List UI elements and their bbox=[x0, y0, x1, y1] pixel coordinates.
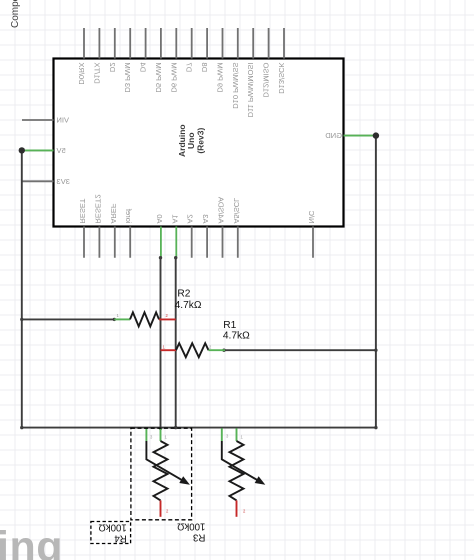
svg-text:5V: 5V bbox=[57, 146, 66, 155]
svg-text:D9 PWM: D9 PWM bbox=[216, 63, 225, 93]
svg-text:ing: ing bbox=[0, 523, 63, 560]
svg-text:D2: D2 bbox=[108, 63, 117, 73]
svg-text:D1/TX: D1/TX bbox=[92, 63, 101, 84]
svg-text:D12/MISO: D12/MISO bbox=[262, 62, 271, 97]
svg-text:4.7kΩ: 4.7kΩ bbox=[223, 330, 250, 341]
svg-text:R3: R3 bbox=[193, 531, 205, 542]
svg-text:D11 PWM/MOSI: D11 PWM/MOSI bbox=[246, 63, 255, 118]
svg-text:D7: D7 bbox=[185, 63, 194, 73]
svg-text:D0/RX: D0/RX bbox=[77, 63, 86, 85]
svg-text:D6 PWM: D6 PWM bbox=[169, 63, 178, 93]
svg-text:AREF: AREF bbox=[109, 203, 118, 223]
svg-text:D8: D8 bbox=[200, 63, 209, 73]
svg-text:R2: R2 bbox=[177, 289, 190, 300]
svg-text:A1: A1 bbox=[170, 214, 179, 223]
svg-text:RESET: RESET bbox=[78, 198, 87, 223]
svg-text:ioref: ioref bbox=[124, 208, 133, 224]
svg-text:D4: D4 bbox=[139, 63, 148, 73]
svg-text:D5 PWM: D5 PWM bbox=[154, 63, 163, 93]
svg-text:A5/SCL: A5/SCL bbox=[232, 198, 241, 224]
svg-text:D10 PWM/SS: D10 PWM/SS bbox=[231, 63, 240, 109]
svg-text:N/C: N/C bbox=[307, 210, 316, 224]
svg-text:VIN: VIN bbox=[57, 116, 70, 125]
svg-text:A0: A0 bbox=[155, 214, 164, 223]
svg-text:3V3: 3V3 bbox=[57, 177, 70, 186]
svg-text:4.7kΩ: 4.7kΩ bbox=[175, 300, 202, 311]
svg-text:A2: A2 bbox=[186, 214, 195, 223]
svg-text:GND: GND bbox=[325, 131, 342, 140]
svg-text:Compo: Compo bbox=[10, 0, 21, 28]
svg-text:A3: A3 bbox=[201, 214, 210, 223]
svg-text:D3 PWM: D3 PWM bbox=[123, 63, 132, 93]
svg-text:D13/SCK: D13/SCK bbox=[277, 63, 286, 94]
svg-text:100kΩ: 100kΩ bbox=[177, 521, 205, 532]
svg-text:100kΩ: 100kΩ bbox=[99, 522, 127, 533]
svg-text:A4/SDA: A4/SDA bbox=[217, 197, 226, 224]
svg-text:R4: R4 bbox=[114, 532, 127, 543]
svg-text:RESET2: RESET2 bbox=[93, 194, 102, 223]
